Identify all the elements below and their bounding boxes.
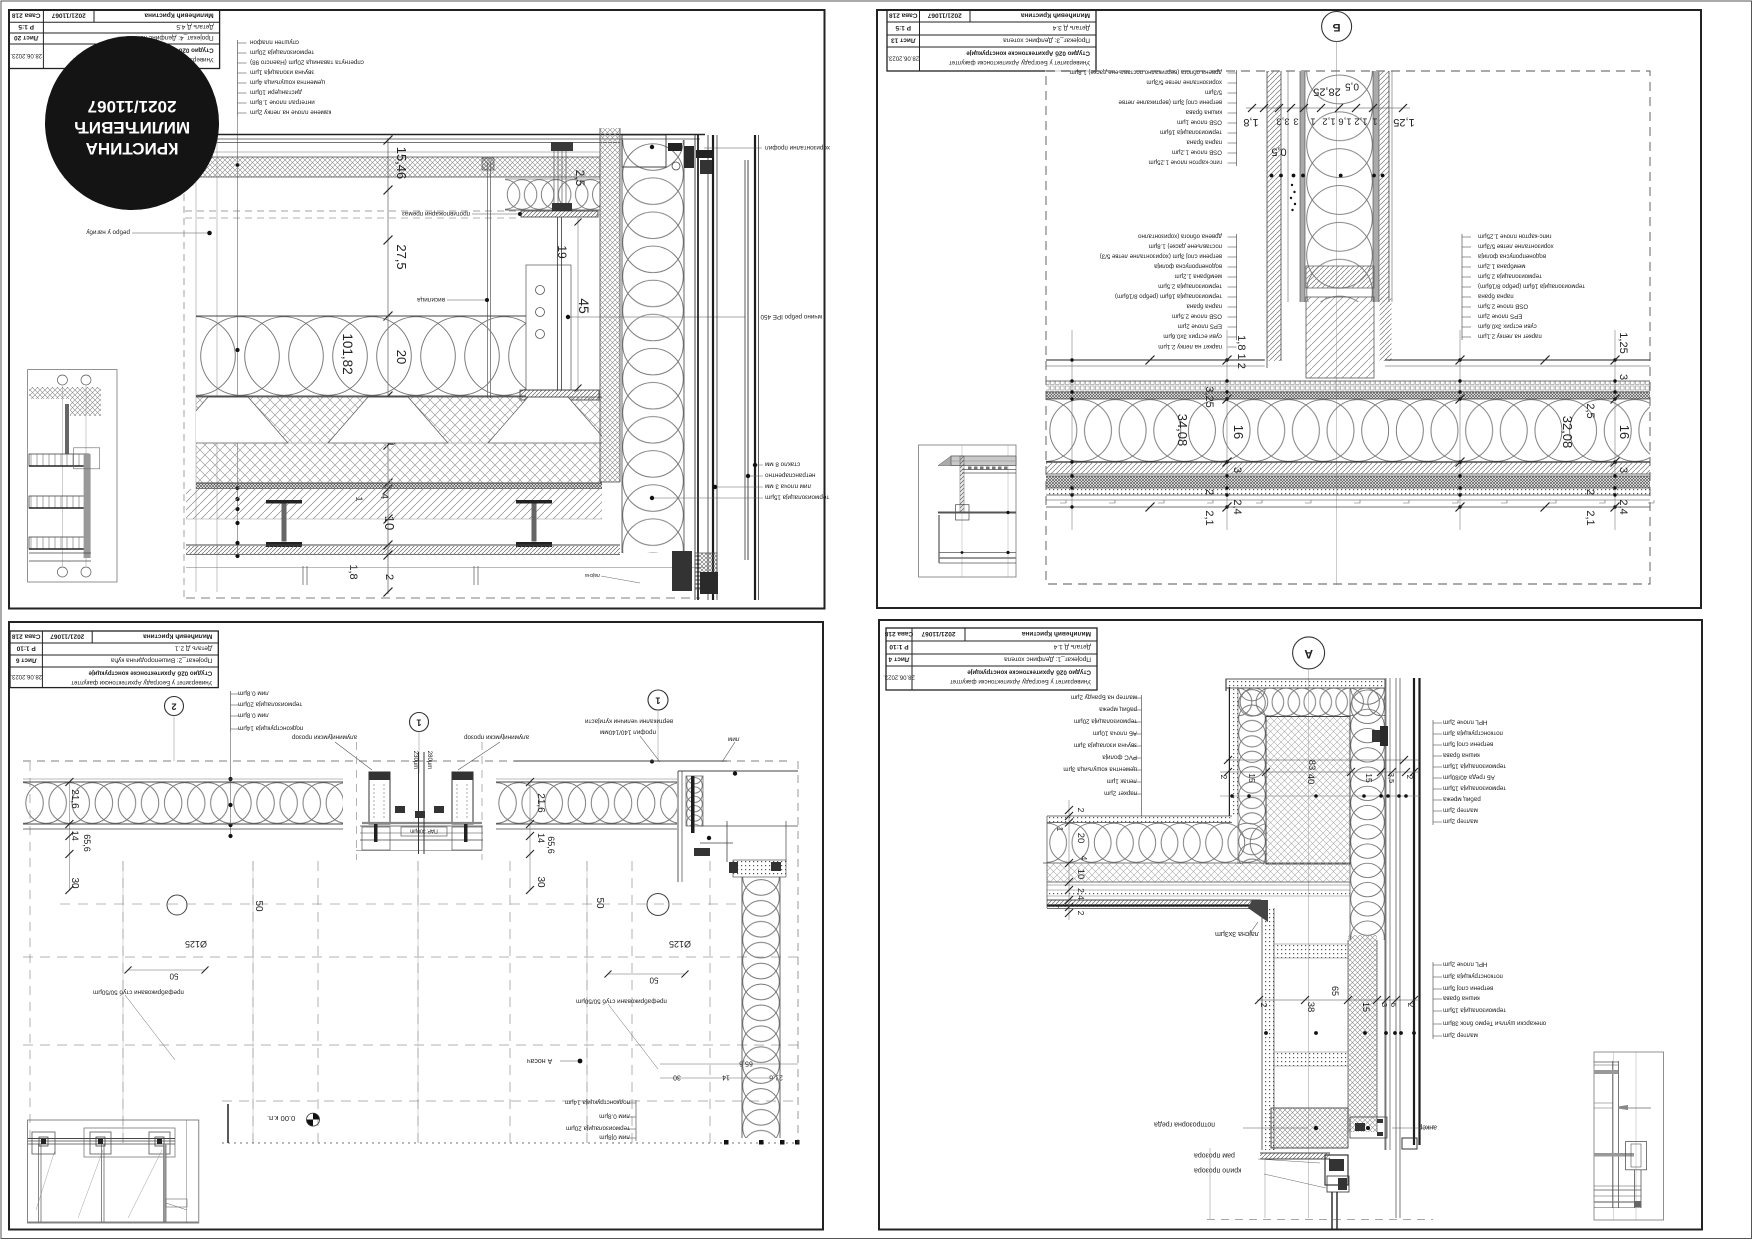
svg-text:2,5: 2,5 — [1584, 403, 1596, 418]
svg-text:Пројекат_3: Делфинс хотела: Пројекат_3: Делфинс хотела — [1003, 37, 1090, 44]
svg-text:50: 50 — [169, 972, 178, 981]
title block — [10, 631, 218, 688]
detail markers — [165, 697, 184, 716]
svg-text:1: 1 — [1372, 116, 1377, 127]
student badge black circle — [45, 36, 219, 210]
extra dashed grid line — [222, 1100, 798, 1102]
svg-text:Лист 13: Лист 13 — [891, 37, 916, 44]
bottom anchor assembly — [672, 551, 692, 591]
svg-text:5/3μm: 5/3μm — [1205, 89, 1222, 96]
svg-text:2021/11067: 2021/11067 — [50, 633, 84, 640]
callout label list — [1236, 70, 1238, 166]
svg-text:Детаљ Д 3.4: Детаљ Д 3.4 — [1052, 24, 1090, 31]
svg-text:21,6: 21,6 — [535, 793, 546, 813]
svg-text:280μm: 280μm — [426, 751, 432, 769]
svg-text:спуштен плафон: спуштен плафон — [249, 39, 299, 46]
svg-text:OSB плоче 1.2μm: OSB плоче 1.2μm — [1172, 149, 1222, 156]
svg-text:алуминијумски прозор: алуминијумски прозор — [292, 734, 358, 741]
svg-text:65,6: 65,6 — [546, 836, 556, 854]
svg-text:1: 1 — [655, 696, 660, 706]
curtain wall mullion lines — [694, 135, 696, 600]
sheet TR border — [877, 10, 1701, 608]
svg-text:19: 19 — [555, 245, 569, 259]
svg-text:32,08: 32,08 — [1560, 416, 1575, 449]
svg-text:рабиц мрежа: рабиц мрежа — [1442, 796, 1480, 803]
svg-text:паркет 2μm: паркет 2μm — [1104, 790, 1137, 797]
svg-text:термоизолација 16μm (ребро 8/1: термоизолација 16μm (ребро 8/16μm) — [1478, 283, 1585, 290]
callout label list — [1432, 962, 1434, 1039]
svg-text:3: 3 — [1293, 116, 1298, 127]
svg-text:30: 30 — [535, 876, 546, 888]
svg-text:висилица: висилица — [417, 296, 445, 303]
svg-text:лим плоча 3 мм: лим плоча 3 мм — [765, 483, 811, 490]
vertical dim chain BR — [1068, 800, 1070, 920]
svg-text:нетранспарентно: нетранспарентно — [765, 472, 816, 479]
wall beam hatch blocks — [1306, 266, 1374, 288]
svg-text:потконструкција 3μm: потконструкција 3μm — [1443, 973, 1503, 980]
svg-text:14: 14 — [70, 831, 80, 841]
svg-text:термоизолација 20μm: термоизолација 20μm — [238, 701, 302, 708]
svg-text:термоизолација 16μm: термоизолација 16μm — [1160, 129, 1222, 136]
horizontal dim line upper — [1226, 759, 1420, 761]
svg-text:50: 50 — [649, 976, 658, 985]
svg-text:лим 0.8μm: лим 0.8μm — [238, 690, 269, 697]
svg-text:Милићевић Кристина: Милићевић Кристина — [143, 633, 213, 641]
AB wall crosshatch block — [1266, 717, 1350, 865]
svg-text:термоизолација 20μm: термоизолација 20μm — [250, 49, 314, 56]
svg-text:2021/11067: 2021/11067 — [921, 630, 955, 637]
floor dimension chains — [1071, 330, 1073, 530]
svg-text:малтер на Брандy 2μm: малтер на Брандy 2μm — [1071, 694, 1137, 701]
svg-text:Сава 218: Сава 218 — [884, 630, 913, 637]
svg-text:Милићевић Кристина: Милићевић Кристина — [144, 12, 214, 20]
svg-text:Сава 218: Сава 218 — [12, 12, 41, 19]
svg-text:65,6: 65,6 — [82, 834, 92, 852]
svg-text:28.06.2023.: 28.06.2023. — [883, 674, 915, 680]
bottom dashed boundary — [186, 597, 700, 599]
svg-text:малтер 2μm: малтер 2μm — [1443, 818, 1478, 825]
callout label list — [635, 1100, 637, 1141]
svg-text:38: 38 — [1305, 1002, 1316, 1013]
svg-text:термоизолација 15μm: термоизолација 15μm — [765, 494, 829, 501]
svg-text:1: 1 — [1310, 116, 1315, 127]
svg-text:кишна брава: кишна брава — [1185, 109, 1222, 116]
svg-text:подконструкција 14μm: подконструкција 14μm — [238, 725, 303, 732]
svg-text:мембрана 1.2μm: мембрана 1.2μm — [1175, 273, 1222, 280]
callout label list — [1432, 720, 1434, 825]
svg-text:ПАР. 300μm: ПАР. 300μm — [410, 828, 438, 834]
svg-text:спрегнута таваница 20μm (Наелс: спрегнута таваница 20μm (Наелсго 98) — [250, 59, 364, 66]
svg-text:14: 14 — [536, 833, 546, 843]
svg-text:термоизолација 16μm (ребро 8/1: термоизолација 16μm (ребро 8/16μm) — [1115, 293, 1222, 300]
svg-text:2,4: 2,4 — [1231, 499, 1243, 514]
right corner assembly — [677, 771, 679, 882]
svg-text:OSB плоче 1μm: OSB плоче 1μm — [1177, 119, 1222, 126]
svg-text:хоризонталне летве 5/3μm: хоризонталне летве 5/3μm — [1146, 79, 1222, 86]
svg-text:27,5: 27,5 — [394, 244, 409, 269]
svg-text:дрвена облога (вертикално пост: дрвена облога (вертикално постављене дас… — [1070, 69, 1222, 76]
svg-text:3,25: 3,25 — [1203, 386, 1215, 407]
svg-text:Детаљ Д 2.1: Детаљ Д 2.1 — [175, 645, 213, 652]
upper dim cluster — [1246, 107, 1410, 109]
cladding fixing — [1372, 730, 1388, 742]
svg-text:Студио 02б Архитектонске конст: Студио 02б Архитектонске конструкције — [88, 670, 212, 677]
svg-text:суви естрих 3х0.6μm: суви естрих 3х0.6μm — [1163, 333, 1222, 340]
svg-text:1,2: 1,2 — [1354, 116, 1367, 127]
svg-text:230μm: 230μm — [412, 751, 418, 769]
floor arm layers — [1047, 816, 1232, 823]
left inset thumbnail — [28, 370, 117, 582]
svg-text:14: 14 — [722, 1074, 730, 1081]
50 dims — [128, 969, 205, 971]
callout label list — [1236, 234, 1238, 340]
svg-text:Универзитет у Београду Архитек: Универзитет у Београду Архитектонски фак… — [71, 679, 212, 686]
svg-text:OSB плоче 2.5μm: OSB плоче 2.5μm — [1172, 313, 1222, 320]
svg-text:40: 40 — [1305, 774, 1316, 785]
wall right hatch strip — [1380, 71, 1390, 302]
svg-text:дистанцери 10μm: дистанцери 10μm — [250, 89, 302, 96]
svg-text:Пројекат_2: Вишепородична кућа: Пројекат_2: Вишепородична кућа — [110, 657, 212, 665]
svg-text:хоризонтални профил: хоризонтални профил — [765, 144, 830, 151]
svg-text:парна брана: парна брана — [1186, 303, 1222, 310]
right lower crosshatch strip — [1348, 935, 1377, 1132]
wall inner gray OSB strips — [1300, 71, 1305, 302]
svg-text:рам прозора: рам прозора — [1194, 1151, 1235, 1158]
roof slab top lines — [190, 134, 705, 136]
svg-text:кишна брава: кишна брава — [1442, 752, 1479, 759]
sheet BL border — [9, 622, 823, 1230]
svg-text:2,1: 2,1 — [1203, 510, 1215, 525]
svg-text:алуминијумски прозор: алуминијумски прозор — [464, 734, 530, 741]
top anchor assembly — [622, 135, 666, 167]
svg-text:2,5: 2,5 — [573, 170, 587, 187]
svg-text:1,8: 1,8 — [347, 564, 359, 579]
svg-text:кишна брава: кишна брава — [1442, 995, 1479, 1002]
svg-text:малтер 2μm: малтер 2μm — [1443, 1032, 1478, 1039]
svg-text:малтер 2μm: малтер 2μm — [1443, 807, 1478, 814]
svg-text:водонепропусна фолија: водонепропусна фолија — [1477, 253, 1546, 260]
svg-text:4: 4 — [1079, 856, 1089, 861]
svg-text:ветрени слој 5μm: ветрени слој 5μm — [1443, 985, 1493, 992]
svg-text:2021/11067: 2021/11067 — [927, 12, 961, 19]
svg-text:1,6: 1,6 — [1338, 116, 1351, 127]
svg-text:30: 30 — [673, 1074, 681, 1081]
svg-text:КРИСТИНА: КРИСТИНА — [86, 139, 179, 158]
svg-text:гипс-картон плоче 1.25μm: гипс-картон плоче 1.25μm — [1478, 233, 1552, 240]
svg-text:Б: Б — [1333, 21, 1341, 33]
svg-text:АБ греда 40/80μm: АБ греда 40/80μm — [1443, 774, 1495, 781]
svg-text:28.06.2023.: 28.06.2023. — [10, 52, 42, 58]
svg-text:1,25: 1,25 — [1393, 116, 1414, 128]
svg-text:3: 3 — [1231, 467, 1243, 473]
svg-text:2: 2 — [1219, 775, 1229, 780]
svg-text:HPL плоче 2μm: HPL плоче 2μm — [1443, 961, 1487, 968]
svg-text:Студио 02б Архитектонске конст: Студио 02б Архитектонске конструкције — [967, 669, 1091, 676]
svg-text:Ø125: Ø125 — [185, 939, 207, 949]
ceiling lines dark — [1047, 900, 1261, 907]
svg-text:50: 50 — [594, 897, 605, 909]
ceiling hatch band — [186, 544, 620, 546]
title block — [887, 10, 1096, 71]
svg-text:профил 140/140мм: профил 140/140мм — [600, 729, 656, 736]
svg-text:0,5: 0,5 — [1271, 146, 1286, 158]
svg-text:OSB плоче 2.5μm: OSB плоче 2.5μm — [1478, 303, 1528, 310]
wall right gray strip — [1373, 71, 1379, 302]
svg-text:дрвена облога (хоризонтално: дрвена облога (хоризонтално — [1138, 233, 1222, 240]
sheet BR border — [879, 620, 1702, 1230]
svg-text:анкер: анкер — [1418, 1123, 1437, 1130]
svg-text:2: 2 — [1076, 808, 1086, 813]
title block — [9, 10, 220, 69]
svg-text:3: 3 — [1617, 467, 1629, 473]
svg-text:префабриковани стуб 50/50μm: префабриковани стуб 50/50μm — [93, 989, 184, 997]
svg-text:крило прозора: крило прозора — [1194, 1166, 1241, 1173]
dots row upper — [1220, 795, 1420, 797]
svg-text:1,2: 1,2 — [1322, 116, 1335, 127]
dots row lower — [1264, 1031, 1268, 1035]
title block — [886, 628, 1097, 690]
svg-text:2: 2 — [1203, 489, 1215, 495]
svg-text:1: 1 — [1056, 904, 1065, 909]
svg-text:парна брана: парна брана — [1477, 293, 1513, 300]
wall insulation band top — [23, 760, 790, 762]
svg-text:хоризонталне летве 5/3μm: хоризонталне летве 5/3μm — [1478, 243, 1554, 250]
svg-text:интеграл плоче 1.8μm: интеграл плоче 1.8μm — [250, 99, 315, 106]
dim line lower — [1257, 999, 1420, 1001]
svg-text:лим 0|8μm: лим 0|8μm — [599, 1134, 630, 1141]
slab diagonal hatch band — [186, 489, 602, 519]
svg-text:HPL плоче 2μm: HPL плоче 2μm — [1443, 719, 1487, 726]
svg-text:ветрени слој 3μm (вертикалне л: ветрени слој 3μm (вертикалне летве — [1118, 99, 1222, 106]
svg-text:лим: лим — [728, 736, 740, 743]
svg-text:0,5: 0,5 — [1345, 81, 1359, 92]
svg-text:3: 3 — [1617, 374, 1629, 380]
svg-text:3,3: 3,3 — [1276, 116, 1289, 127]
svg-text:2: 2 — [1584, 489, 1596, 495]
svg-text:1: 1 — [416, 718, 421, 728]
fireproofing dashed lines — [185, 210, 518, 212]
dashed detail frame — [1046, 71, 1650, 584]
svg-text:Детаљ Д 1.4: Детаљ Д 1.4 — [1053, 643, 1091, 650]
anchor pins — [551, 142, 573, 151]
svg-text:рабиц мрежа: рабиц мрежа — [1099, 706, 1137, 713]
svg-text:гипс-картон плоче 1.25μm: гипс-картон плоче 1.25μm — [1149, 159, 1223, 166]
svg-text:Р 1:5: Р 1:5 — [18, 23, 34, 30]
svg-text:2: 2 — [1405, 775, 1414, 780]
hanger rod — [487, 162, 489, 398]
svg-text:83: 83 — [1306, 760, 1317, 771]
svg-text:Лист 20: Лист 20 — [14, 34, 39, 41]
svg-text:15: 15 — [1364, 773, 1374, 783]
svg-text:EPS плоче 2μm: EPS плоче 2μm — [1178, 323, 1222, 330]
TR inset thumbnail — [919, 445, 1017, 577]
svg-text:Милићевић Кристина: Милићевић Кристина — [1020, 12, 1090, 20]
svg-text:30: 30 — [69, 877, 80, 889]
svg-text:2,4: 2,4 — [1076, 888, 1086, 900]
floor layers — [1046, 359, 1265, 361]
svg-text:Р 1:5: Р 1:5 — [895, 24, 911, 31]
BR inset thumbnail — [1594, 1052, 1664, 1220]
svg-text:28,25: 28,25 — [1313, 86, 1341, 98]
svg-text:ребро у нагибу: ребро у нагибу — [86, 229, 130, 237]
svg-text:лим 0.8μm: лим 0.8μm — [238, 712, 269, 719]
dashed structural grid — [122, 861, 124, 1143]
svg-text:28.06.2023.: 28.06.2023. — [887, 55, 919, 61]
callout label list — [1461, 234, 1463, 340]
svg-text:постављене даске) 1.8μm: постављене даске) 1.8μm — [1149, 243, 1222, 250]
svg-text:5: 5 — [1389, 1003, 1398, 1007]
svg-text:мчино ребро IPE 450: мчино ребро IPE 450 — [760, 313, 822, 321]
svg-text:Пројекат_1: Делфинс хотела: Пројекат_1: Делфинс хотела — [1004, 656, 1091, 663]
svg-text:звучна изолација 1μm: звучна изолација 1μm — [250, 69, 314, 76]
svg-text:3: 3 — [1380, 1003, 1389, 1007]
svg-text:термоизолација 2.5μm: термоизолација 2.5μm — [1478, 273, 1542, 280]
svg-text:МИЛИЋЕВИЋ: МИЛИЋЕВИЋ — [74, 118, 190, 137]
svg-text:лепак 1μm: лепак 1μm — [1107, 778, 1137, 785]
svg-text:Ø125: Ø125 — [669, 939, 691, 949]
svg-text:мембрана 1.2μm: мембрана 1.2μm — [1478, 263, 1525, 270]
svg-text:термоизолација 15μm: термоизолација 15μm — [1443, 785, 1506, 792]
svg-text:цементна кошуљица 4μm: цементна кошуљица 4μm — [250, 79, 325, 86]
floor pedestals — [266, 500, 302, 504]
svg-text:2,4: 2,4 — [1617, 499, 1629, 514]
svg-text:термоизолација 20μm: термоизолација 20μm — [566, 1125, 630, 1132]
svg-text:2: 2 — [383, 574, 395, 580]
svg-text:вертикални челични кутијасти: вертикални челични кутијасти — [585, 718, 673, 725]
BL inset thumbnail — [28, 1120, 199, 1223]
section marker A — [1293, 637, 1325, 669]
svg-text:2: 2 — [1259, 1003, 1269, 1008]
svg-text:15,46: 15,46 — [394, 147, 409, 180]
svg-text:ветрени слој 3μm (хоризонталне: ветрени слој 3μm (хоризонталне летве 5/3… — [1100, 253, 1222, 260]
svg-text:10: 10 — [1075, 869, 1086, 880]
svg-text:50: 50 — [253, 900, 264, 912]
svg-text:ветрени слој 5μm: ветрени слој 5μm — [1443, 741, 1493, 748]
svg-text:опекарски шупљи Термо блок 38μ: опекарски шупљи Термо блок 38μm — [1443, 1020, 1546, 1027]
hanger ticks — [302, 566, 304, 585]
vertical dimension chain — [387, 138, 389, 594]
facade cladding lines — [1385, 678, 1387, 1150]
svg-text:Студио 02б Архитектонске конст: Студио 02б Архитектонске конструкције — [966, 50, 1090, 57]
svg-text:термоизолација 2.5μm: термоизолација 2.5μm — [1158, 283, 1222, 290]
callout label list — [1141, 695, 1143, 797]
svg-text:АБ плоча 10μm: АБ плоча 10μm — [1093, 730, 1137, 737]
svg-text:2021/11067: 2021/11067 — [88, 97, 177, 116]
svg-text:2,1: 2,1 — [1584, 510, 1596, 525]
svg-text:Лист 4: Лист 4 — [888, 656, 909, 663]
svg-text:префабриковани стуб 50/50μm: префабриковани стуб 50/50μm — [576, 998, 667, 1006]
svg-text:потпрозорна греда: потпрозорна греда — [1154, 1120, 1215, 1127]
svg-text:1,8: 1,8 — [1243, 116, 1258, 128]
svg-text:парна брана: парна брана — [1186, 139, 1222, 146]
svg-text:термоизолација 20μm: термоизолација 20μm — [1074, 718, 1137, 725]
wall left hatch strip — [1267, 71, 1281, 361]
svg-text:15: 15 — [1247, 773, 1257, 783]
svg-text:цементна кошуљица 3μm: цементна кошуљица 3μm — [1063, 766, 1137, 773]
parapet top stipple strip — [1226, 679, 1385, 688]
svg-text:Милићевић Кристина: Милићевић Кристина — [1021, 630, 1091, 638]
roof insulation crosshatch strip — [196, 157, 600, 177]
svg-text:1,8 1 2: 1,8 1 2 — [1235, 335, 1247, 369]
svg-text:паркет на лепку 2.1μm: паркет на лепку 2.1μm — [1158, 343, 1222, 350]
IPE beam web and connection — [526, 265, 571, 390]
svg-text:2: 2 — [1406, 1003, 1415, 1008]
section marker B — [1322, 12, 1352, 42]
svg-text:15: 15 — [1361, 1002, 1371, 1012]
svg-text:3,5: 3,5 — [1387, 773, 1396, 783]
svg-text:лајсна 3x3μm: лајсна 3x3μm — [1215, 930, 1259, 937]
svg-text:Р 1:10: Р 1:10 — [16, 645, 36, 652]
callout label list — [237, 40, 239, 116]
svg-text:1: 1 — [1055, 827, 1064, 832]
svg-text:Детаљ Д 4.5: Детаљ Д 4.5 — [176, 23, 214, 30]
floor lower bands — [1046, 462, 1650, 474]
svg-text:камене плоче на лепку 2μm: камене плоче на лепку 2μm — [250, 109, 331, 116]
dots row on wall — [1270, 174, 1274, 178]
svg-text:1,25: 1,25 — [1617, 332, 1629, 353]
svg-text:20: 20 — [1075, 833, 1086, 844]
svg-text:45: 45 — [576, 298, 592, 314]
bottom dotted line — [222, 1142, 798, 1144]
steel beam top flange — [521, 211, 598, 217]
sheet TL border — [9, 10, 825, 609]
svg-text:потконструкција 3μm: потконструкција 3μm — [1443, 730, 1503, 737]
svg-text:термоизолација 15μm: термоизолација 15μm — [1443, 1007, 1506, 1014]
svg-text:лим 0.8μm: лим 0.8μm — [599, 1113, 630, 1120]
svg-text:16: 16 — [1617, 425, 1632, 439]
svg-text:2: 2 — [1076, 911, 1086, 916]
svg-text:стакло 8 мм: стакло 8 мм — [765, 461, 800, 468]
svg-text:21,6: 21,6 — [69, 789, 80, 809]
svg-text:34,08: 34,08 — [1175, 414, 1190, 447]
right dim chain texts — [660, 1063, 798, 1065]
svg-text:PVC фолија: PVC фолија — [1102, 754, 1137, 761]
svg-text:А носач: А носач — [527, 1057, 553, 1064]
svg-text:Сава 218: Сава 218 — [12, 633, 41, 640]
window sill beam — [1271, 1108, 1348, 1148]
svg-text:Р 1:10: Р 1:10 — [889, 643, 909, 650]
svg-text:28.06.2023.: 28.06.2023. — [10, 673, 42, 679]
svg-text:противпожарни премаз: противпожарни премаз — [402, 210, 470, 217]
svg-text:звучна изолација 3μm: звучна изолација 3μm — [1074, 742, 1137, 749]
svg-text:термоизолација 15μm: термоизолација 15μm — [1443, 763, 1506, 770]
lattice band under deck — [196, 443, 602, 483]
svg-text:Лист 6: Лист 6 — [15, 657, 36, 664]
svg-text:Сава 218: Сава 218 — [889, 12, 918, 19]
svg-text:А: А — [1304, 647, 1313, 661]
grid bubbles — [167, 895, 187, 915]
svg-text:65: 65 — [1330, 986, 1340, 996]
svg-text:0.00 к.п.: 0.00 к.п. — [267, 1114, 295, 1123]
facade wall crosshatch strip — [600, 128, 620, 482]
svg-text:2021/11067: 2021/11067 — [51, 12, 85, 19]
wall lower stipple edge — [1262, 908, 1274, 1150]
window assembly — [369, 772, 390, 824]
svg-text:2: 2 — [171, 702, 176, 712]
svg-text:водонепропусна фолија: водонепропусна фолија — [1153, 263, 1222, 270]
svg-text:подконструкција 14μm: подконструкција 14μm — [565, 1099, 630, 1106]
left dim chain — [68, 782, 70, 890]
svg-text:паркет на лепку 2.1μm: паркет на лепку 2.1μm — [1478, 333, 1542, 340]
fine screed band — [196, 483, 602, 488]
window frame — [1271, 1147, 1348, 1149]
svg-text:16: 16 — [1231, 425, 1246, 439]
svg-text:лајсна: лајсна — [585, 572, 600, 578]
svg-text:суви естрих 3х0.6μm: суви естрих 3х0.6μm — [1478, 323, 1537, 330]
callout label list — [230, 691, 232, 732]
svg-text:EPS плоче 2μm: EPS плоче 2μm — [1478, 313, 1522, 320]
svg-text:Универзитет у Београду Архитек: Универзитет у Београду Архитектонски фак… — [950, 678, 1091, 685]
